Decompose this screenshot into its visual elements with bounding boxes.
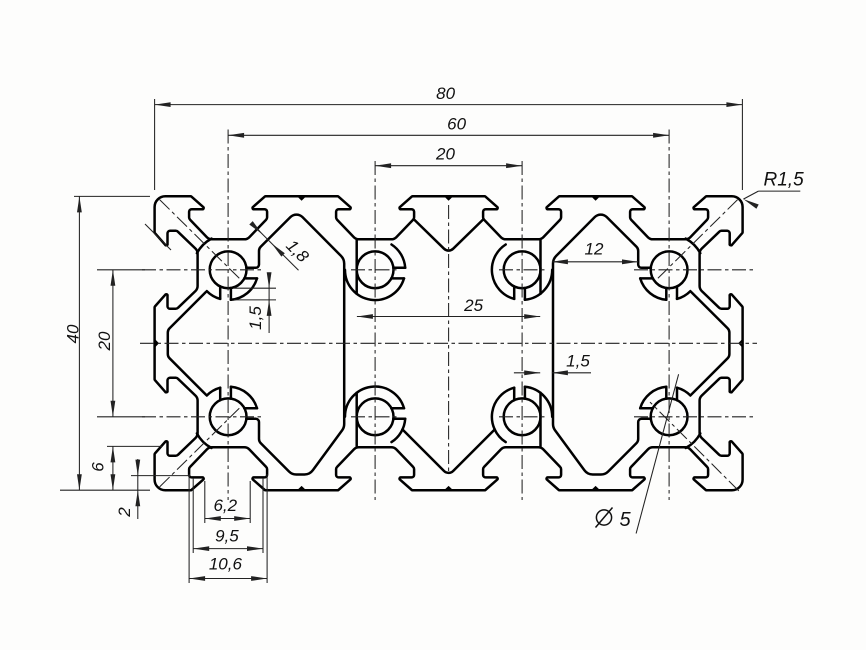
centerline row 2 mid-right: [499, 416, 547, 418]
right cavity right wall connector: [691, 292, 729, 395]
dimension 10,6 bottom: [188, 474, 190, 583]
svg-text:9,5: 9,5: [215, 527, 239, 546]
left cavity right wall and apexes: [246, 215, 344, 475]
svg-text:1,5: 1,5: [246, 306, 265, 330]
centerline slot column 1: [227, 130, 229, 501]
dimension 9,5 bottom: [192, 478, 194, 553]
boss (70,30) outer ring and slits: [665, 387, 668, 399]
svg-text:80: 80: [436, 84, 455, 103]
dimension 20 top: [375, 165, 522, 167]
8 holes diameter 5: [210, 251, 247, 288]
boss (50,10) outer ring and slits: [513, 286, 516, 299]
centerline row 2 mid-left: [351, 416, 400, 418]
dimension 60: [228, 134, 669, 136]
right cavity left wall and apexes: [553, 215, 651, 475]
dimension 6 left: [107, 445, 162, 447]
centerline profile vertical center: [448, 205, 450, 472]
boss (70,10) outer ring and slits: [665, 288, 668, 300]
svg-text:20: 20: [435, 145, 455, 164]
svg-text:10,6: 10,6: [209, 555, 243, 574]
left cavity left wall connector: [168, 292, 206, 395]
face center V-notch marks: [297, 196, 306, 200]
svg-text:20: 20: [95, 331, 114, 351]
center cavity bottom V notch: [402, 429, 494, 472]
centerline bottom-left 45deg: [160, 408, 240, 487]
svg-text:1,5: 1,5: [566, 352, 590, 371]
centerline row 1 mid-left: [351, 269, 400, 271]
centerline profile horizontal center: [140, 342, 757, 344]
svg-text:5: 5: [619, 509, 631, 531]
centerline row 1 left: [142, 269, 263, 271]
centerline slot column 3: [521, 161, 523, 500]
svg-text:6: 6: [89, 462, 108, 472]
boss (50,30) outer ring and slits: [513, 388, 516, 401]
svg-text:2: 2: [115, 507, 134, 518]
centerline row 1 right: [634, 269, 756, 271]
dimension 40 (overall height): [74, 195, 150, 197]
dimension 2 left: [131, 475, 190, 477]
svg-text:6,2: 6,2: [213, 496, 237, 515]
boss (30,10) outer ring and slits: [393, 267, 405, 270]
centerline row 2 left: [142, 416, 263, 418]
dimension 1,5 boss wall: [234, 287, 276, 289]
svg-text:40: 40: [64, 324, 83, 343]
svg-text:12: 12: [585, 240, 604, 259]
short diagonal dash top-left: [145, 224, 171, 250]
centerline slot column 2: [374, 161, 376, 500]
centerline row 1 mid-right: [499, 269, 547, 271]
dimension 6,2 bottom: [204, 481, 206, 523]
profile outer outline with T-slots: [155, 196, 743, 490]
leader R1,5 corner radius: [743, 191, 758, 199]
dimension 20 left: [97, 269, 145, 271]
centerline row 2 right: [634, 416, 756, 418]
leader diameter 5 hole callout: [636, 374, 679, 533]
dimension 1,8 diagonal: [257, 228, 299, 270]
svg-text:25: 25: [463, 296, 483, 315]
center cavity top V notch: [414, 219, 484, 250]
dimension 12: [552, 261, 638, 263]
centerline slot column 4: [668, 130, 670, 501]
svg-text:R1,5: R1,5: [764, 170, 805, 191]
center cavity side walls: [355, 240, 358, 293]
boss (10,30) outer ring and slits: [219, 388, 222, 401]
dimension 25: [357, 316, 540, 318]
centerline top-right 45deg: [658, 200, 738, 279]
centerline top-left 45deg: [160, 200, 240, 279]
boss (10,10) outer ring and slits: [219, 286, 222, 299]
dimension 80 (overall width): [154, 99, 156, 190]
dimension 1,5 web: [514, 372, 540, 374]
svg-text:60: 60: [447, 115, 466, 134]
boss (30,30) outer ring and slits: [391, 407, 404, 410]
centerline bottom-right 45deg: [650, 402, 739, 491]
